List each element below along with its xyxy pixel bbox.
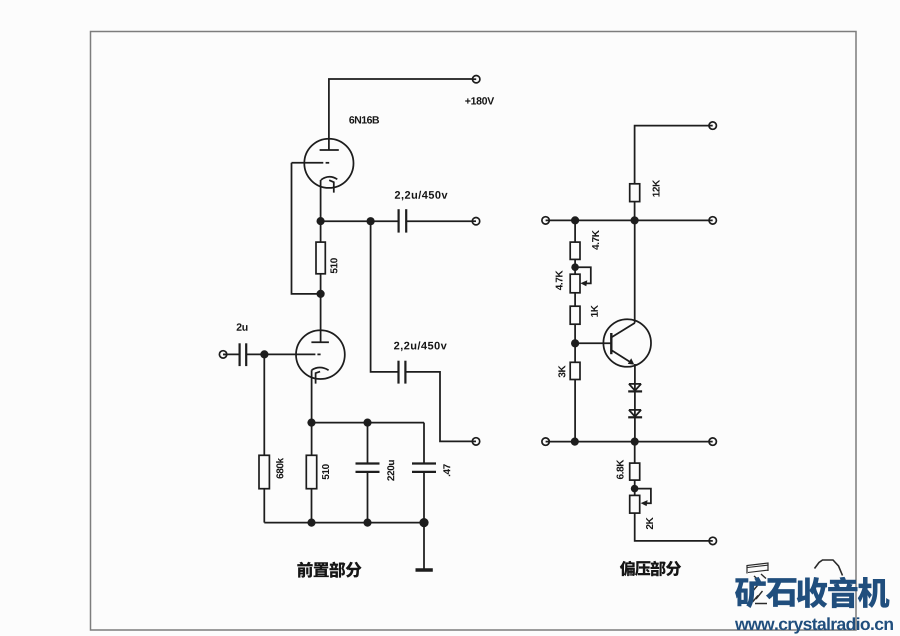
label 偏压部分 — [620, 561, 635, 576]
wire 680k branch — [263, 354, 265, 455]
capacitor C2 2,2u/450v — [397, 361, 399, 384]
resistor R9 3K — [570, 362, 580, 379]
resistor R3 680k — [259, 455, 269, 488]
wire node to C2 — [371, 221, 399, 372]
wire left chain — [574, 220, 576, 242]
collector lead — [634, 220, 636, 323]
resistor R6 4.7K — [570, 242, 580, 259]
node V1 cathode junction — [317, 217, 325, 225]
node coupling junction — [367, 217, 375, 225]
trimmer R11 2K — [630, 495, 640, 513]
terminal — [709, 122, 716, 129]
wire grid V1 — [292, 163, 321, 294]
resistor R10 6.8K — [634, 442, 636, 464]
node dot grid V2 — [260, 350, 268, 358]
diode D2 — [628, 410, 642, 417]
terminal +180V — [473, 76, 480, 83]
diode D1 — [628, 384, 642, 392]
capacitor C4 220u — [367, 423, 369, 464]
wire cathode V1 — [320, 180, 322, 242]
resistor R4 510 — [306, 455, 316, 488]
label 6N16B — [349, 116, 379, 123]
terminal out2 — [472, 438, 479, 445]
emitter lead — [634, 364, 636, 442]
watermark url — [735, 617, 893, 633]
bottom node row — [264, 522, 424, 524]
terminal out1 — [472, 218, 479, 225]
node V2 anode junction — [317, 290, 325, 298]
resistor R8 1K — [570, 306, 580, 324]
triode V1 6N16B — [292, 139, 354, 193]
triode V2 — [246, 330, 345, 383]
wire R1 to V2 plate — [320, 274, 322, 343]
resistor R1 510 — [316, 242, 325, 274]
watermark headphone doodle — [815, 560, 843, 576]
node row upper — [546, 219, 709, 221]
wire V1 anode to +180V — [329, 79, 476, 150]
watermark 矿石收音机 — [735, 577, 766, 608]
label +180V — [465, 97, 494, 104]
wire C1 to terminal — [406, 220, 476, 222]
watermark crystal doodle — [747, 563, 768, 574]
wire to terminal — [635, 513, 709, 541]
ground — [423, 523, 425, 570]
terminal input — [219, 351, 226, 358]
label 前置部分 — [297, 562, 312, 578]
capacitor C3 2u — [239, 343, 241, 366]
resistor R5 12K — [630, 184, 640, 202]
top node row — [312, 422, 425, 424]
wire to C1 — [321, 220, 399, 222]
transistor Q1 — [575, 319, 651, 367]
wire C2 to terminal — [405, 372, 476, 442]
trimmer R7 4.7K — [570, 274, 580, 293]
capacitor C1 2,2u/450v — [398, 209, 400, 232]
wire top — [635, 126, 709, 184]
wire cathode V2 — [311, 370, 313, 455]
capacitor C5 .47 — [423, 423, 425, 464]
node row lower — [546, 441, 709, 443]
